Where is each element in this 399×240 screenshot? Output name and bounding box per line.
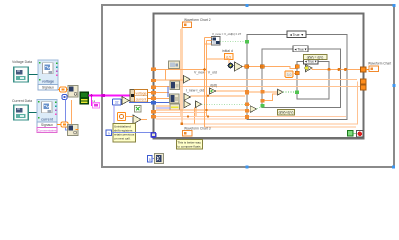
svg-text:d(dt): d(dt) xyxy=(210,84,217,88)
main orange wire y66.5 into cases xyxy=(243,67,298,69)
subVI icon B xyxy=(170,81,180,90)
subVI icon D xyxy=(170,104,180,110)
numeric constant 0,5 xyxy=(225,54,234,60)
svg-text:Signaux: Signaux xyxy=(42,86,54,90)
vertical wire pair x204 xyxy=(204,38,206,128)
converter from dynamic data (voltage) xyxy=(60,87,67,92)
svg-text:Waveform Chart 3: Waveform Chart 3 xyxy=(184,127,211,131)
waveform chart 2 terminal xyxy=(183,22,192,28)
wire voltage data to express VI xyxy=(29,74,38,76)
magenta cluster wire to loop xyxy=(89,95,132,97)
wire current signals to converter xyxy=(57,124,61,126)
svg-text:Signaux: Signaux xyxy=(41,123,53,127)
svg-text:5: 5 xyxy=(149,158,151,162)
converter from dynamic data (current) xyxy=(61,122,68,127)
tunnels case A left lower xyxy=(245,90,249,95)
waveform chart 3 terminal xyxy=(183,131,193,137)
svg-text:Waveform Chart: Waveform Chart xyxy=(368,62,391,66)
loop condition terminal xyxy=(357,131,364,138)
tooltip better way to compare floats xyxy=(177,140,203,150)
svg-text:voltage: voltage xyxy=(136,91,147,95)
wire blue pill down xyxy=(66,100,68,130)
magenta branch down to type icon xyxy=(92,96,94,106)
comparison triangle node xyxy=(122,97,129,105)
green boolean wire bottom xyxy=(202,103,246,105)
svg-text:V_new - V_old: V_new - V_old xyxy=(194,71,217,75)
wires unbundle to shift registers xyxy=(148,92,153,94)
wire to subVI below loop xyxy=(152,158,155,160)
svg-text:Voltage Data: Voltage Data xyxy=(12,60,32,64)
control terminal Voltage Data xyxy=(14,67,28,82)
case structure A xyxy=(247,35,347,120)
triangle straddling case A left xyxy=(249,91,261,93)
svg-text:Current Data: Current Data xyxy=(12,99,32,103)
junction dots wires xyxy=(180,122,183,125)
svg-text:◄True▼: ◄True▼ xyxy=(294,47,308,51)
green X icon xyxy=(135,106,142,113)
svg-text:Commentaires: Commentaires xyxy=(38,128,57,132)
merge/align subVI (voltage) xyxy=(68,86,78,98)
svg-text:3,0: 3,0 xyxy=(287,73,292,77)
true constant xyxy=(348,131,357,137)
blue wire n to loop xyxy=(112,132,152,134)
n iterations icon xyxy=(106,130,112,136)
pink type cast icon xyxy=(92,99,100,108)
wire orange vertical current to icons xyxy=(71,100,73,124)
magenta junction dots xyxy=(102,94,105,97)
svg-text:initial d: initial d xyxy=(222,49,233,53)
numeric constant in case B xyxy=(285,71,293,78)
svg-text:Waveform Chart 2: Waveform Chart 2 xyxy=(184,18,211,22)
svg-text:current: current xyxy=(41,118,54,122)
comparison triangle node 2 xyxy=(126,115,148,124)
green tunnel on case A xyxy=(245,40,249,44)
iteration terminal i xyxy=(151,132,157,138)
green tunnels case B and C xyxy=(260,104,264,108)
merge/align subVI (current) xyxy=(68,125,79,136)
outer flat sequence structure xyxy=(102,5,394,167)
orange vertical wire pair chart2 feed xyxy=(181,28,183,125)
build cluster icon (dark green) xyxy=(80,92,89,104)
svg-text:current: current xyxy=(136,98,147,102)
tunnel on loop right edge to chart xyxy=(361,67,367,72)
case A selector label xyxy=(287,31,306,38)
selection handles on outer structure xyxy=(246,4,396,169)
subVI icon C xyxy=(170,94,180,103)
comparison triangle before case A xyxy=(235,62,243,71)
triangle comparisons xyxy=(184,76,191,84)
tunnels loop right edge lower xyxy=(361,79,367,84)
shift register terminals on loop left edge xyxy=(151,68,156,119)
svg-text:◄True ▼: ◄True ▼ xyxy=(289,33,304,37)
svg-text:to compare floats.: to compare floats. xyxy=(178,144,202,148)
formula label top xyxy=(304,55,328,60)
orange ring icon xyxy=(118,113,126,121)
constant 5 below loop xyxy=(148,156,153,163)
wires midleft xyxy=(156,92,169,94)
I32 conversion icon xyxy=(113,99,122,105)
multiply node in case C xyxy=(305,65,312,72)
wire current data to express VI xyxy=(29,112,37,114)
svg-text:d(W) = d(V): d(W) = d(V) xyxy=(307,55,324,59)
express VI current xyxy=(37,100,57,133)
output wire y68.5 through case edges to chart xyxy=(312,68,361,69)
wire converter to merge icon xyxy=(67,89,69,91)
case structure B xyxy=(262,49,341,108)
subVI icon below loop xyxy=(155,154,164,164)
svg-text:V_new = V_old[k] ± dT: V_new = V_old[k] ± dT xyxy=(212,32,241,36)
lavender wire I32 down xyxy=(113,105,115,132)
svg-text:I_new-I_old: I_new-I_old xyxy=(186,89,204,93)
wire sr to icon A xyxy=(156,68,204,70)
wire voltage signals to converter xyxy=(58,89,60,91)
triangle node near d(dt) xyxy=(210,88,217,94)
converter blue pill xyxy=(62,95,67,100)
svg-text:◄True▼: ◄True▼ xyxy=(304,60,317,64)
green boolean wire to case A xyxy=(220,41,246,43)
svg-text:voltage: voltage xyxy=(42,80,54,84)
long wires across loop xyxy=(190,79,357,81)
svg-text:32: 32 xyxy=(115,101,119,105)
case structure C xyxy=(297,62,329,100)
subVI compare 2x2 icon xyxy=(212,37,221,46)
yellow comment uninitialized shift registers xyxy=(113,124,136,143)
case C selector label xyxy=(304,58,319,64)
while loop xyxy=(154,14,364,139)
second wire into case C y72.5 xyxy=(294,73,297,75)
svg-text:on next call.: on next call. xyxy=(114,137,131,141)
formula label bottom xyxy=(278,110,295,116)
svg-text:d(W)<d(V): d(W)<d(V) xyxy=(279,111,294,115)
multiply circle node xyxy=(207,59,234,68)
control terminal Current Data xyxy=(14,105,28,120)
subVI icon A xyxy=(169,61,180,69)
unbundle by name node xyxy=(130,90,148,103)
tunnels on case edges y66 xyxy=(245,65,249,69)
svg-text:n: n xyxy=(108,131,110,135)
waveform chart terminal right xyxy=(369,66,379,72)
case B selector label xyxy=(293,46,308,52)
express VI voltage xyxy=(38,60,58,90)
pale vertical wire down right xyxy=(182,82,358,124)
